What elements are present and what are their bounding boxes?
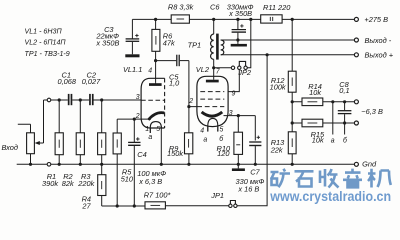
resistor R3 bbox=[76, 100, 84, 164]
svg-text:220k: 220k bbox=[77, 179, 94, 188]
svg-text:10k: 10k bbox=[309, 88, 321, 97]
wire VL1 anode node bbox=[155, 61, 157, 83]
svg-text:Gnd: Gnd bbox=[362, 159, 377, 168]
node C8 top bbox=[343, 100, 346, 103]
watermark char yin bbox=[343, 169, 362, 188]
value label R13 bbox=[270, 138, 285, 155]
svg-text:3: 3 bbox=[136, 94, 140, 101]
svg-text:5: 5 bbox=[220, 126, 224, 133]
resistor R7 bbox=[145, 202, 165, 209]
resistor R6 bbox=[152, 19, 160, 60]
node VL2 anode bbox=[212, 66, 215, 69]
node rail R13 bbox=[291, 163, 294, 166]
svg-text:510: 510 bbox=[121, 174, 134, 183]
svg-text:а: а bbox=[331, 138, 335, 145]
wire JP2 right to B+ bbox=[247, 19, 251, 67]
jumper JP1 cap bbox=[230, 201, 235, 205]
value label R10 bbox=[217, 144, 231, 158]
svg-text:Выход -: Выход - bbox=[365, 36, 392, 45]
wire output minus line bbox=[221, 39, 355, 41]
wire heater stub a bbox=[332, 102, 334, 135]
tube VL1 pin1 stub bbox=[149, 128, 151, 133]
svg-text:4: 4 bbox=[148, 68, 152, 75]
terminal 6.3V bottom bbox=[354, 121, 358, 125]
value label C5 bbox=[169, 73, 180, 88]
svg-text:R7 100*: R7 100* bbox=[144, 190, 172, 199]
node grid R3 bbox=[79, 98, 82, 101]
svg-text:4: 4 bbox=[200, 128, 204, 135]
tube VL1.1 heater bbox=[150, 122, 161, 133]
svg-text:JP1: JP1 bbox=[210, 191, 224, 200]
svg-text:С6: С6 bbox=[210, 2, 220, 11]
svg-text:VL1 - 6Н3П: VL1 - 6Н3П bbox=[25, 28, 63, 36]
svg-text:1: 1 bbox=[145, 126, 149, 133]
svg-text:2: 2 bbox=[135, 113, 140, 120]
ground (C6) bbox=[231, 40, 247, 47]
potentiometer R1 bbox=[27, 133, 35, 165]
wire VL1 grid network line bbox=[44, 99, 90, 101]
wire feedback bottom bbox=[102, 205, 145, 207]
svg-text:х 6,3 В: х 6,3 В bbox=[138, 177, 162, 186]
wire VL1 grid line bbox=[94, 99, 142, 101]
resistor R9 bbox=[185, 107, 193, 165]
resistor R4 bbox=[98, 164, 106, 206]
node rail R9 bbox=[187, 163, 190, 166]
svg-text:0,068: 0,068 bbox=[58, 77, 77, 86]
resistor R3b bbox=[98, 100, 106, 164]
tube VL2 heater stubs bbox=[208, 127, 218, 132]
tube VL2 suppressor g3 bbox=[200, 98, 224, 100]
value label C7 bbox=[236, 168, 265, 194]
node grid R3b bbox=[100, 98, 103, 101]
watermark char ji bbox=[368, 169, 391, 188]
value label R15 bbox=[311, 130, 325, 145]
value label C2 bbox=[82, 71, 101, 86]
tube VL1.1 cathode bbox=[148, 113, 164, 120]
node C6 top bbox=[236, 18, 239, 21]
tube VL1.1 envelope bbox=[141, 78, 165, 128]
capacitor C3 bbox=[126, 19, 140, 54]
watermark char shou bbox=[320, 169, 339, 188]
svg-text:R11 220: R11 220 bbox=[263, 3, 291, 12]
tube VL1.1 envelope dashed edge bbox=[164, 78, 166, 128]
resistor R2 bbox=[55, 100, 63, 164]
watermark char shi bbox=[295, 171, 314, 186]
potentiometer R1 wiper arrow bbox=[35, 100, 44, 145]
svg-text:Выход +: Выход + bbox=[365, 51, 394, 60]
value label R3 bbox=[77, 172, 94, 188]
svg-text:1,0: 1,0 bbox=[169, 78, 180, 87]
terminal input connector top bbox=[47, 98, 51, 102]
svg-text:www.crystalradio.cn: www.crystalradio.cn bbox=[269, 189, 391, 204]
capacitor C5 bbox=[156, 55, 189, 66]
resistor R11 bbox=[261, 15, 282, 23]
svg-text:22k: 22k bbox=[270, 145, 283, 154]
node R6 top bbox=[154, 18, 157, 21]
value label C1 bbox=[58, 71, 77, 86]
terminal 6.3V top bbox=[354, 100, 358, 104]
node feedback tap bbox=[266, 53, 269, 56]
capacitor C2 bbox=[89, 94, 94, 105]
transformer TP1 core bbox=[216, 34, 219, 60]
svg-text:+275 В: +275 В bbox=[364, 15, 388, 24]
svg-text:C4: C4 bbox=[137, 150, 146, 159]
svg-text:JP2: JP2 bbox=[237, 68, 251, 77]
svg-text:х 16 В: х 16 В bbox=[237, 184, 259, 193]
svg-text:100k: 100k bbox=[270, 83, 286, 92]
node rail R4 bbox=[100, 163, 103, 166]
svg-text:27: 27 bbox=[81, 202, 91, 211]
value label R12 bbox=[270, 76, 286, 92]
value label C8 bbox=[339, 80, 349, 95]
node stub a bbox=[331, 100, 334, 103]
value label C3 bbox=[95, 25, 119, 47]
svg-text:120: 120 bbox=[217, 149, 230, 158]
wire VL2 cathode pin3 bbox=[224, 116, 256, 141]
tube VL1.1 anode bbox=[149, 82, 162, 86]
svg-text:ТР1: ТР1 bbox=[188, 41, 202, 50]
resistor R15 bbox=[292, 119, 354, 127]
value label C4 bbox=[137, 150, 166, 186]
resistor R10 bbox=[234, 116, 243, 165]
watermark chinese bbox=[271, 169, 391, 188]
resistor R12 bbox=[288, 19, 296, 131]
value label C6 bbox=[210, 2, 254, 18]
node grid R2 bbox=[58, 98, 61, 101]
capacitor C4 bbox=[128, 119, 140, 206]
wire R7 to JP1 bbox=[165, 205, 228, 207]
transformer TP1 primary winding bbox=[211, 19, 214, 67]
svg-text:47k: 47k bbox=[163, 38, 175, 47]
svg-text:10k: 10k bbox=[312, 136, 324, 145]
node heater bias top bbox=[291, 100, 294, 103]
jumper JP1 pins bbox=[229, 204, 237, 207]
svg-text:0,1: 0,1 bbox=[339, 86, 349, 95]
ground (C3) bbox=[125, 54, 139, 57]
terminal Vyhod minus bbox=[354, 38, 358, 42]
node rail VL1 pin5 bbox=[160, 163, 163, 166]
node bottom R5 bbox=[116, 204, 119, 207]
node R10 top bbox=[237, 114, 240, 117]
node C8 bottom stub b bbox=[343, 121, 346, 124]
node bottom C4 bbox=[133, 204, 136, 207]
transformer TP1 secondary winding bbox=[221, 40, 224, 55]
svg-text:R8 3,3k: R8 3,3k bbox=[168, 3, 194, 12]
svg-text:150k: 150k bbox=[167, 149, 183, 158]
node JP2 B+ bbox=[249, 18, 252, 21]
resistor R14 bbox=[292, 98, 354, 106]
svg-text:5: 5 bbox=[156, 126, 160, 133]
terminal +275 V bbox=[354, 17, 358, 21]
wire VL2 screen grid bbox=[228, 70, 239, 92]
svg-text:VL2: VL2 bbox=[196, 65, 209, 74]
terminal Gnd bbox=[354, 162, 358, 166]
wire JP2 left bbox=[214, 67, 232, 69]
wire output plus line bbox=[221, 54, 355, 56]
terminal input connector bottom bbox=[47, 163, 51, 167]
svg-text:х 350В: х 350В bbox=[95, 38, 119, 47]
pin labels VL2 bbox=[188, 69, 235, 144]
jumper JP2 pins bbox=[231, 66, 247, 69]
svg-text:а: а bbox=[148, 134, 152, 141]
pin labels VL1 bbox=[135, 68, 161, 142]
terminal Vyhod plus bbox=[354, 53, 358, 57]
node R12 top bbox=[291, 18, 294, 21]
svg-text:а: а bbox=[203, 137, 207, 144]
svg-text:82k: 82k bbox=[62, 179, 74, 188]
jumper JP2 cap bbox=[239, 61, 245, 66]
svg-text:С7: С7 bbox=[250, 168, 260, 177]
svg-text:~6,3 В: ~6,3 В bbox=[361, 107, 383, 116]
node rail R10 bbox=[237, 163, 240, 166]
tube VL1.1 grid bbox=[141, 99, 165, 101]
node rail C7 bbox=[254, 163, 257, 166]
tube VL2 screen grid g2 bbox=[200, 91, 224, 93]
capacitor C8 bbox=[338, 102, 352, 123]
wire heater stub b bbox=[344, 123, 346, 135]
svg-text:х 350В: х 350В bbox=[228, 9, 252, 18]
node heater bias bottom bbox=[291, 121, 294, 124]
svg-text:Вход: Вход bbox=[2, 143, 19, 152]
node C4 top bbox=[133, 118, 136, 121]
tube VL2 anode bbox=[206, 68, 219, 83]
value label R1 bbox=[42, 172, 58, 188]
value label R2 bbox=[62, 172, 74, 188]
node label tube list bbox=[25, 28, 70, 58]
wire input bbox=[18, 124, 31, 133]
node rail R3 bbox=[79, 163, 82, 166]
wire JP1 to output plus bbox=[237, 55, 267, 206]
node rail R2 bbox=[58, 163, 61, 166]
svg-text:390k: 390k bbox=[42, 179, 58, 188]
watermark char kuang bbox=[271, 169, 291, 188]
svg-text:3: 3 bbox=[229, 110, 233, 117]
node VL2 grid bbox=[187, 105, 190, 108]
wire ground rail bbox=[17, 163, 355, 165]
tube VL2 control grid g1 bbox=[197, 106, 224, 108]
value label R9 bbox=[167, 144, 183, 158]
value label R14 bbox=[308, 82, 322, 97]
wire VL1 pin5 to ground bbox=[160, 126, 162, 164]
svg-text:ТР1 - ТВЗ-1-9: ТР1 - ТВЗ-1-9 bbox=[25, 50, 70, 58]
svg-text:VL2 - 6П14П: VL2 - 6П14П bbox=[25, 38, 67, 46]
node rail R1 bbox=[29, 163, 32, 166]
svg-text:0,027: 0,027 bbox=[82, 77, 101, 86]
tube VL2 cathode bbox=[202, 112, 223, 116]
value label R5 bbox=[121, 168, 134, 184]
value label R4 bbox=[81, 194, 91, 210]
tube VL2 envelope bbox=[197, 76, 228, 126]
wire C5 to VL2 grid bbox=[189, 61, 197, 107]
wire VL1 cathode lead bbox=[117, 118, 151, 120]
wire top supply rail bbox=[132, 18, 354, 20]
svg-text:VL1.1: VL1.1 bbox=[123, 65, 142, 74]
resistor R13 bbox=[288, 132, 296, 165]
svg-text:9: 9 bbox=[232, 90, 236, 97]
value label R6 bbox=[163, 32, 175, 48]
resistor R5 bbox=[113, 119, 121, 206]
capacitor C1 bbox=[68, 94, 72, 105]
capacitor C7 bbox=[249, 136, 261, 165]
tube VL2 heater bbox=[208, 118, 218, 131]
node primary top bbox=[212, 18, 215, 21]
resistor R8 bbox=[171, 15, 189, 23]
ground (R10) bbox=[232, 164, 245, 171]
svg-text:2: 2 bbox=[188, 98, 193, 105]
node C6 bottom bbox=[236, 38, 239, 41]
node VL1 anode bbox=[154, 59, 157, 62]
capacitor C6 bbox=[232, 19, 246, 40]
